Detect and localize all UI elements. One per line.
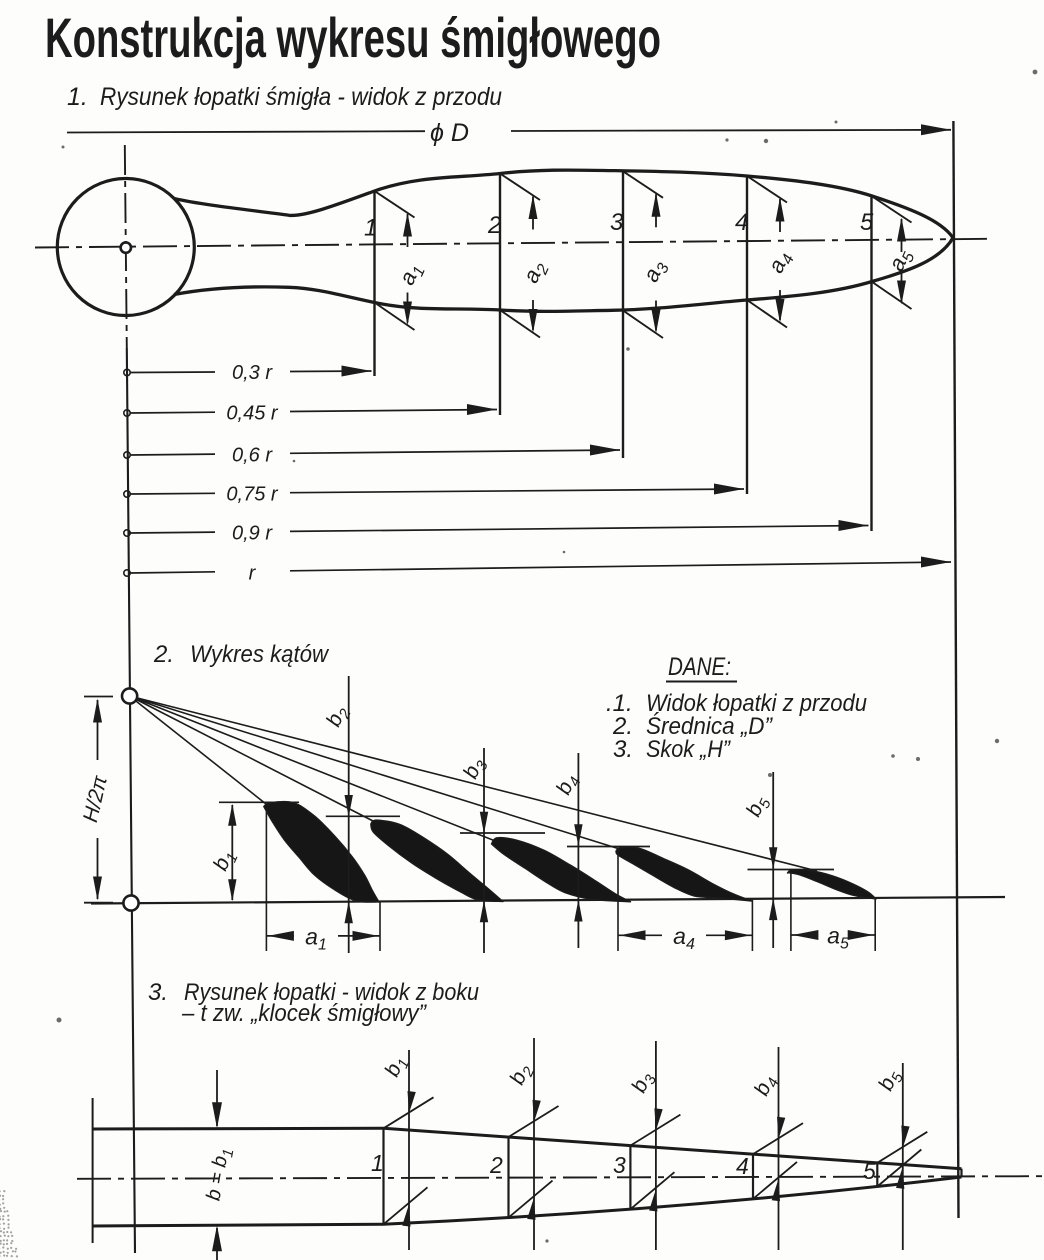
svg-text:2: 2	[489, 1152, 503, 1178]
svg-text:Wykres kątów: Wykres kątów	[190, 641, 330, 668]
svg-text:5: 5	[863, 1158, 876, 1184]
svg-text:0,75 r: 0,75 r	[226, 484, 278, 506]
svg-text:4: 4	[736, 1153, 749, 1179]
svg-text:3.: 3.	[613, 736, 633, 763]
svg-text:0,9 r: 0,9 r	[232, 523, 273, 545]
svg-text:2.: 2.	[153, 641, 174, 668]
svg-text:2: 2	[487, 212, 501, 239]
svg-text:1: 1	[364, 215, 377, 242]
svg-text:Rysunek łopatki śmigła - widok: Rysunek łopatki śmigła - widok z przodu	[100, 83, 502, 111]
svg-text:0,6 r: 0,6 r	[232, 445, 273, 467]
svg-text:Skok „H”: Skok „H”	[646, 736, 731, 763]
svg-text:DANE:: DANE:	[668, 653, 731, 681]
svg-text:ϕ D: ϕ D	[430, 119, 469, 147]
svg-text:Konstrukcja wykresu śmigłowego: Konstrukcja wykresu śmigłowego	[45, 6, 661, 69]
svg-text:3: 3	[610, 209, 624, 236]
svg-text:1.: 1.	[67, 83, 88, 111]
svg-text:3.: 3.	[148, 979, 168, 1006]
svg-text:5: 5	[860, 209, 874, 236]
svg-text:0,3 r: 0,3 r	[232, 362, 273, 384]
svg-text:– t zw. „klocek śmigłowy”: – t zw. „klocek śmigłowy”	[181, 1000, 427, 1027]
svg-text:1: 1	[371, 1150, 384, 1176]
svg-text:0,45 r: 0,45 r	[226, 403, 278, 425]
svg-text:3: 3	[613, 1152, 626, 1178]
svg-text:4: 4	[735, 209, 748, 236]
